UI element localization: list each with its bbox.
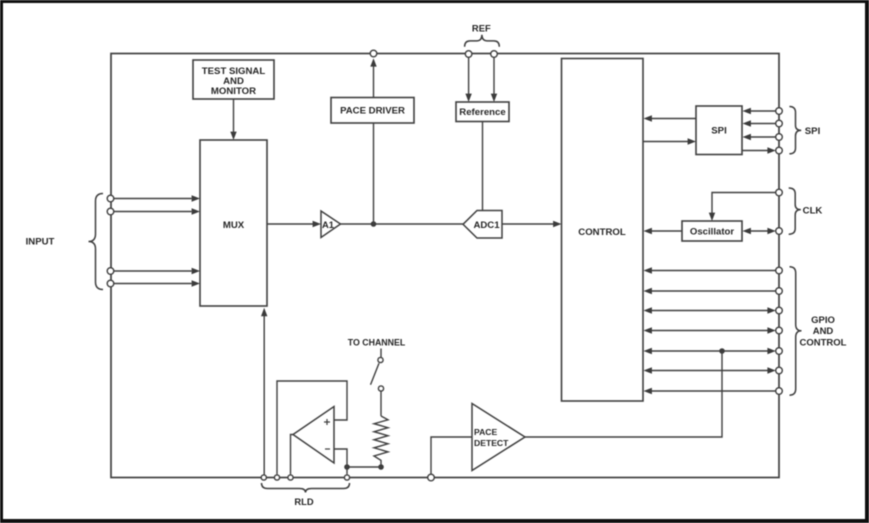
pin input 3 (107, 268, 114, 275)
junction gpio 5 node (719, 348, 725, 354)
junction inverting node (344, 464, 350, 470)
wire SPI pin 4 (742, 147, 776, 153)
svg-text:AND: AND (813, 326, 834, 337)
wire input 2 to MUX (114, 208, 200, 214)
wire gpio 5 (644, 348, 776, 354)
pin rld 2 (274, 475, 279, 480)
wire input 3 to MUX (114, 268, 200, 274)
pin ref 1 (465, 51, 472, 58)
wire pace-driver up to pin (370, 58, 376, 97)
pin gpio 1 (776, 267, 783, 274)
svg-text:PACE: PACE (474, 427, 498, 437)
pin rld 4 (344, 475, 349, 480)
pin gpio 4 (776, 327, 783, 334)
wire clk pin to oscillator (709, 193, 776, 222)
wire rld inverting input (334, 449, 347, 474)
block MUX (200, 140, 267, 306)
label GPIO AND CONTROL (800, 315, 847, 349)
resistor rld (374, 416, 388, 467)
wire pin to pace-detect (431, 437, 472, 474)
pin gpio 3 (776, 307, 783, 314)
pin CLK 2 (776, 228, 783, 235)
svg-text:CLK: CLK (803, 206, 823, 217)
pin ref 2 (491, 51, 498, 58)
svg-text:SPI: SPI (711, 126, 727, 137)
box PACE DRIVER (331, 98, 414, 124)
pin input 1 (107, 195, 114, 202)
svg-text:CONTROL: CONTROL (800, 338, 847, 349)
brace input (89, 194, 104, 290)
junction pace-driver node (371, 221, 377, 227)
block SPI (696, 106, 742, 155)
block CONTROL (562, 59, 644, 402)
pin gpio 5 (776, 348, 783, 355)
wire gpio 2 (644, 288, 776, 294)
wire pace-driver down to signal line (373, 123, 375, 224)
brace clk (789, 188, 801, 234)
pin SPI 4 (776, 147, 783, 154)
svg-text:RLD: RLD (294, 496, 313, 507)
pin pace-detect in (428, 474, 435, 481)
junction resistor bottom (378, 464, 384, 470)
wire MUX to A1 (267, 221, 321, 227)
wire ref pin 1 to reference (465, 57, 471, 102)
svg-text:MUX: MUX (223, 220, 245, 231)
brace rld (262, 483, 350, 493)
pin SPI 2 (776, 120, 783, 127)
pin gpio 2 (776, 288, 783, 295)
wire input 4 to MUX (114, 280, 200, 286)
brace spi (789, 107, 801, 154)
wire reference to ADC1 (482, 122, 484, 211)
wire gpio 7 (644, 388, 776, 394)
pin rld 3 (288, 475, 293, 480)
wire oscillator to clk pin (743, 228, 776, 234)
svg-text:PACE DRIVER: PACE DRIVER (340, 106, 405, 117)
pin gpio 6 (776, 367, 783, 374)
pin input 4 (107, 280, 114, 287)
box TEST SIGNAL AND MONITOR (193, 60, 274, 99)
switch to-channel (371, 357, 384, 391)
wire SPI to CONTROL (644, 115, 697, 121)
wire SPI pin 3 (743, 134, 776, 140)
svg-text:A1: A1 (322, 219, 334, 230)
wire rld output (291, 435, 294, 475)
svg-text:Reference: Reference (459, 107, 505, 118)
wire rld to MUX (261, 308, 267, 475)
wire ref pin 2 to reference (491, 57, 497, 102)
wire pace-detect to gpio node (525, 351, 722, 437)
wire channel stub (380, 349, 382, 358)
svg-text:REF: REF (472, 23, 491, 34)
wire SPI pin 1 (743, 108, 776, 114)
pin input 2 (107, 208, 114, 215)
svg-text:DETECT: DETECT (474, 438, 509, 448)
wire switch to resistor (380, 391, 382, 416)
svg-text:SPI: SPI (805, 126, 821, 137)
svg-text:GPIO: GPIO (811, 315, 835, 326)
brace ref (465, 35, 500, 47)
box Reference (456, 102, 509, 122)
pin SPI 1 (776, 108, 783, 115)
wire gpio 6 (644, 367, 776, 373)
wire oscillator to CONTROL (644, 228, 683, 234)
svg-text:TO CHANNEL: TO CHANNEL (348, 338, 406, 348)
box Oscillator (682, 221, 742, 241)
adc ADC1 (463, 211, 502, 239)
chip boundary (111, 54, 779, 478)
svg-text:CONTROL: CONTROL (578, 227, 626, 238)
wire gpio 1 (644, 267, 776, 273)
op-amp A1 (321, 211, 341, 238)
svg-text:INPUT: INPUT (26, 237, 55, 248)
wire gpio 3 (644, 307, 776, 313)
wire SPI pin 2 (743, 120, 776, 126)
svg-text:Oscillator: Oscillator (690, 227, 735, 238)
op-amp RLD (293, 407, 334, 464)
wire resistor to inverting node (347, 466, 381, 468)
wire gpio 4 (644, 327, 776, 333)
pin CLK 1 (776, 189, 783, 196)
pin SPI 3 (776, 134, 783, 141)
wire test-signal to MUX (230, 99, 236, 140)
pin pace out (370, 50, 377, 57)
svg-text:MONITOR: MONITOR (211, 86, 256, 97)
wire CONTROL to SPI (643, 138, 696, 144)
pin gpio 7 (776, 388, 783, 395)
svg-text:ADC1: ADC1 (473, 220, 500, 231)
wire ADC1 to CONTROL (502, 221, 562, 227)
wire input 1 to MUX (114, 195, 200, 201)
wire A1 to ADC1 (341, 223, 464, 225)
brace gpio (790, 267, 802, 395)
comparator PACE DETECT (472, 404, 525, 471)
pin rld 1 (261, 475, 266, 480)
wire rld non-inverting feedback (277, 381, 347, 474)
